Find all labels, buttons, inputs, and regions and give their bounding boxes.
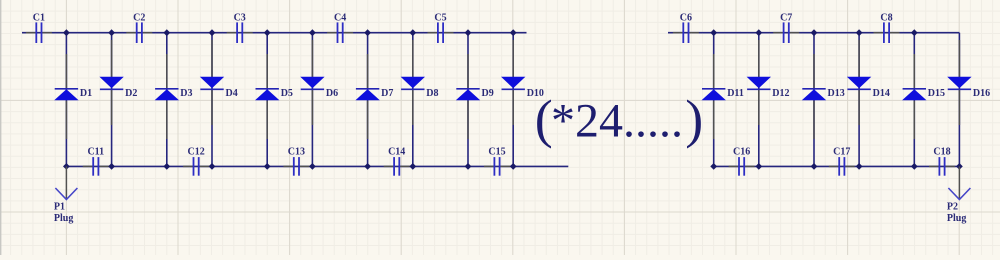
- svg-text:): ): [685, 89, 703, 149]
- svg-text:C13: C13: [288, 147, 305, 158]
- svg-text:C8: C8: [880, 13, 892, 24]
- svg-text:D15: D15: [928, 88, 945, 99]
- svg-text:D11: D11: [727, 88, 744, 99]
- svg-text:D9: D9: [482, 88, 494, 99]
- svg-text:C1: C1: [33, 13, 45, 24]
- svg-text:C18: C18: [933, 147, 950, 158]
- svg-text:C3: C3: [234, 13, 246, 24]
- svg-text:C2: C2: [133, 13, 145, 24]
- svg-text:C16: C16: [733, 147, 750, 158]
- svg-text:D12: D12: [772, 88, 789, 99]
- svg-text:Plug: Plug: [54, 213, 73, 224]
- svg-text:C12: C12: [187, 147, 204, 158]
- svg-text:D4: D4: [226, 88, 238, 99]
- svg-text:D2: D2: [125, 88, 137, 99]
- svg-text:D13: D13: [828, 88, 845, 99]
- svg-text:C11: C11: [87, 147, 104, 158]
- svg-text:P1: P1: [54, 202, 65, 213]
- svg-text:D1: D1: [80, 88, 92, 99]
- svg-text:C5: C5: [434, 13, 446, 24]
- svg-text:Plug: Plug: [947, 213, 966, 224]
- svg-text:D5: D5: [281, 88, 293, 99]
- svg-text:P2: P2: [947, 202, 958, 213]
- svg-text:*24.....: *24.....: [551, 95, 683, 148]
- svg-text:D7: D7: [381, 88, 393, 99]
- svg-text:D6: D6: [326, 88, 338, 99]
- svg-text:D16: D16: [973, 88, 990, 99]
- svg-text:D14: D14: [873, 88, 890, 99]
- svg-text:C17: C17: [833, 147, 850, 158]
- svg-text:C15: C15: [488, 147, 505, 158]
- svg-text:C14: C14: [388, 147, 405, 158]
- svg-text:C7: C7: [780, 13, 792, 24]
- svg-text:C4: C4: [334, 13, 346, 24]
- svg-text:C6: C6: [680, 13, 692, 24]
- svg-text:D8: D8: [426, 88, 438, 99]
- svg-text:D3: D3: [180, 88, 192, 99]
